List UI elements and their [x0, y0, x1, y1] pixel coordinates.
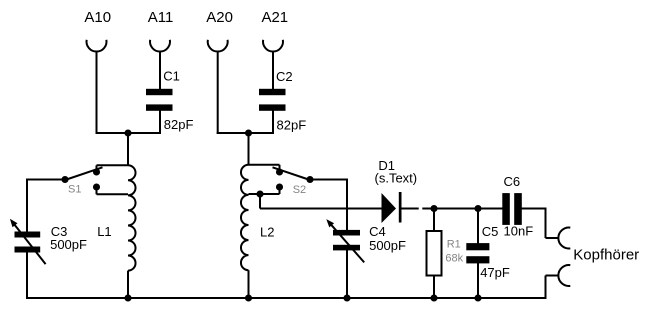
wire A21 drop	[272, 52, 274, 90]
switch S1 pole dot	[61, 176, 68, 183]
wire L2 bottom lead	[248, 270, 250, 298]
capacitor C3 arrow shaft	[13, 222, 46, 264]
wire S2 lower contact stub	[279, 187, 281, 194]
terminal Kopfhoerer lower	[558, 265, 570, 286]
terminal A10	[87, 40, 107, 52]
svg-text:A11: A11	[148, 9, 174, 26]
wire C6 right lead	[521, 208, 547, 210]
svg-text:47pF: 47pF	[480, 265, 510, 280]
resistor R1	[427, 231, 442, 276]
wire detector line left	[260, 208, 382, 210]
node L2 tap junction	[256, 190, 263, 197]
svg-text:S2: S2	[293, 184, 306, 196]
wire A11 drop	[159, 52, 161, 90]
svg-text:Kopfhörer: Kopfhörer	[573, 246, 639, 263]
wire phones lower stub	[546, 275, 559, 277]
node rail C5	[474, 294, 481, 301]
wire left vertical upper	[26, 179, 28, 233]
switch S2 lower contact	[276, 183, 283, 190]
wire L1 upper tap	[97, 164, 129, 166]
inductor L2	[241, 165, 249, 270]
terminal A11	[150, 40, 170, 52]
svg-text:C4: C4	[369, 224, 386, 239]
wire phones lower rise	[545, 276, 547, 300]
switch S2 pole dot	[306, 176, 313, 183]
wire C2 bottom lead	[272, 111, 274, 134]
terminal A21	[263, 40, 283, 52]
capacitor C3	[15, 232, 41, 238]
wire S1 lower contact stub	[96, 187, 98, 194]
wire phones upper drop	[545, 209, 547, 239]
wire left vertical lower	[26, 250, 28, 299]
switch S1 lever	[65, 167, 103, 180]
svg-text:500pF: 500pF	[369, 238, 406, 253]
capacitor C5	[466, 243, 489, 250]
wire S1 upper contact stub	[96, 165, 98, 172]
capacitor C4 arrow shaft	[329, 222, 364, 262]
node R1 top junction	[430, 205, 437, 212]
wire C5 bottom lead	[477, 263, 479, 298]
node rail C4	[343, 294, 350, 301]
wire S2 pole lead	[310, 179, 347, 181]
capacitor C4	[333, 230, 360, 236]
switch S2 upper contact	[276, 168, 283, 175]
capacitor C4 arrowhead	[326, 219, 334, 227]
wire S2 upper contact stub	[279, 165, 281, 172]
wire L1 top feed	[127, 133, 129, 165]
node rail R1	[430, 294, 437, 301]
switch S2 lever	[273, 167, 311, 180]
wire L2 lower tap	[249, 193, 280, 195]
wire L2 upper tap	[249, 164, 280, 166]
switch S1 upper contact	[93, 168, 100, 175]
svg-text:C1: C1	[163, 69, 180, 84]
wire top-right horizontal	[217, 132, 274, 134]
inductor L1	[128, 165, 136, 270]
svg-text:C6: C6	[504, 174, 521, 189]
wire C4 bottom lead	[346, 250, 348, 299]
node C5 top junction	[474, 205, 481, 212]
wire top-left horizontal	[96, 132, 162, 134]
capacitor C3 arrowhead	[10, 219, 18, 227]
wire C1 bottom lead	[159, 111, 161, 134]
svg-text:82pF: 82pF	[164, 117, 194, 132]
diode D1	[382, 193, 397, 223]
wire A20 drop	[217, 52, 219, 135]
svg-text:A20: A20	[206, 9, 233, 26]
wire R1 bottom lead	[433, 276, 435, 299]
wire R1 top lead	[433, 209, 435, 232]
wire A10 drop	[96, 52, 98, 135]
wire L1 bottom lead	[127, 271, 129, 298]
wire C5 top lead	[477, 209, 479, 244]
capacitor C6	[502, 193, 510, 225]
svg-text:S1: S1	[68, 183, 81, 195]
node rail L1	[124, 294, 131, 301]
wire bottom rail	[27, 297, 546, 299]
svg-text:(s.Text): (s.Text)	[375, 170, 418, 185]
svg-text:68k: 68k	[445, 252, 463, 264]
node rail L2	[245, 294, 252, 301]
svg-text:500pF: 500pF	[50, 237, 87, 252]
svg-text:10nF: 10nF	[504, 224, 534, 239]
switch S1 lower contact	[93, 183, 100, 190]
svg-text:A21: A21	[261, 9, 288, 26]
capacitor C1	[146, 89, 173, 95]
wire tap down-lead	[259, 194, 261, 209]
wire detector line right	[422, 208, 503, 210]
svg-text:C5: C5	[482, 224, 499, 239]
svg-text:A10: A10	[84, 9, 111, 26]
terminal Kopfhoerer upper	[558, 228, 570, 249]
terminal A20	[208, 40, 228, 52]
wire S1 pole lead	[27, 179, 65, 181]
wire L1 lower tap	[97, 193, 129, 195]
wire D1 cathode lead	[401, 208, 419, 210]
wire L2 top feed	[248, 133, 250, 165]
wire S2 pole drop	[346, 179, 348, 231]
svg-text:82pF: 82pF	[277, 118, 307, 133]
svg-text:R1: R1	[447, 239, 461, 251]
svg-text:L1: L1	[97, 224, 111, 239]
node junction top-right	[245, 129, 252, 136]
capacitor C2	[259, 89, 286, 95]
svg-text:C2: C2	[276, 69, 293, 84]
svg-text:L2: L2	[260, 224, 274, 239]
node junction top-left	[124, 129, 131, 136]
wire phones upper stub	[546, 237, 559, 239]
